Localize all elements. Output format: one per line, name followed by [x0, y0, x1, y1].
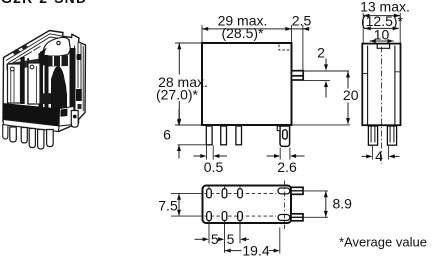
bottom view tab column centerline [284, 181, 286, 230]
svg-text:0.5: 0.5 [204, 159, 224, 175]
relay illustration: pin 1 [10, 127, 16, 142]
svg-text:2: 2 [317, 45, 325, 61]
bottom view body [203, 186, 292, 224]
svg-text:7.5: 7.5 [158, 198, 178, 214]
relay illustration: left panel 2 [28, 63, 40, 104]
bottom view pin hole 2 [222, 189, 227, 198]
svg-text:G2R-2-SND: G2R-2-SND [1, 0, 87, 6]
relay illustration: panel 1 contacts [11, 67, 14, 102]
front view tab pin notch [277, 126, 280, 131]
relay illustration: dome screw [57, 41, 60, 44]
bottom view column ticks bottom [209, 211, 240, 253]
relay illustration: right face lower mark [78, 104, 82, 109]
bottom view pin hole 3 [238, 189, 243, 198]
bottom view tab 2 [291, 214, 303, 221]
dimension 7.5 row spacing [171, 192, 202, 194]
relay illustration: panel header band [7, 59, 41, 71]
svg-text:2.6: 2.6 [277, 159, 297, 175]
bottom view row centerline 2 [205, 215, 277, 217]
relay illustration: pin 5 [47, 130, 54, 147]
relay illustration: panel 2 contacts [36, 66, 38, 103]
side view body [362, 44, 400, 126]
relay illustration: base bottom rim [3, 120, 59, 132]
svg-text:4: 4 [375, 148, 383, 164]
relay illustration: base right step [59, 107, 74, 127]
bottom view tab slot 2 [278, 215, 290, 221]
bottom view tab 1 [291, 187, 303, 194]
bottom view pin hole 6 [238, 212, 243, 221]
relay illustration: tab pin [71, 111, 78, 128]
relay illustration: interior dark bar B2 [45, 55, 49, 110]
dimension 0.5 pin width [206, 146, 208, 160]
svg-text:6: 6 [163, 127, 171, 143]
relay illustration: pin 0 [3, 125, 8, 140]
relay illustration: panel 2 screw [30, 65, 34, 69]
svg-text:5: 5 [227, 231, 235, 247]
side view centerline [380, 47, 382, 164]
front view side tab [292, 71, 304, 80]
relay illustration: top face slots [13, 49, 21, 55]
relay illustration: black base [3, 103, 60, 126]
svg-text:2.5: 2.5 [292, 13, 312, 29]
dimension 19.4 [225, 249, 231, 253]
svg-text:10: 10 [374, 26, 390, 42]
relay illustration: dark region left of dome [40, 48, 47, 67]
relay illustration: top dome [43, 37, 70, 58]
front view side tab midline [292, 75, 304, 77]
dimension 28 max left [178, 43, 180, 75]
svg-text:(28.5)*: (28.5)* [221, 25, 264, 41]
relay illustration: left panel 1 [8, 64, 21, 103]
front view pin 1 [206, 126, 212, 145]
bottom view column ticks top [209, 186, 240, 198]
relay illustration: case body [3, 31, 86, 132]
relay illustration: interior dark bar A [21, 57, 25, 104]
svg-text:8.9: 8.9 [333, 196, 353, 212]
svg-text:20: 20 [343, 87, 359, 103]
bottom view pin hole 5 [222, 212, 227, 221]
bottom view pin hole 1 [207, 189, 212, 198]
bottom view row centerline 1 [205, 192, 277, 194]
dimension 5 5 pin pitch [195, 238, 206, 240]
dimension 20 height [347, 72, 349, 89]
front view hidden tab dashes [279, 45, 291, 51]
bottom view tab slot 1 [278, 188, 290, 194]
side view top recess [377, 45, 389, 49]
relay illustration: base right sockets [60, 109, 67, 117]
relay illustration: pin 4 [38, 130, 44, 150]
side view pin left [368, 126, 377, 145]
dimension 8.9 tab spacing [297, 190, 328, 192]
svg-text:(27.0)*: (27.0)* [156, 87, 199, 103]
dimension 6 pin length [178, 109, 180, 126]
side view step right [395, 71, 400, 73]
relay illustration: pin 3 [29, 129, 35, 148]
side view step left [363, 73, 368, 75]
front view tab pin [280, 126, 290, 146]
bottom view pin hole 4 [207, 212, 212, 221]
relay illustration: right tall column [70, 48, 76, 110]
svg-text:19.4: 19.4 [242, 242, 269, 258]
relay illustration: right face block [76, 89, 82, 101]
relay illustration: pin 2 [21, 128, 27, 144]
relay illustration: mechanism band [40, 93, 67, 105]
side view inner wall right [394, 46, 396, 125]
relay illustration: armature dark mass [51, 66, 67, 110]
dimension 2.6 tab pin width [279, 148, 281, 160]
svg-text:5: 5 [211, 231, 219, 247]
front view pin 3 [236, 126, 242, 145]
front view tab pin hole [283, 130, 288, 139]
relay illustration: top face inner lip [6, 34, 70, 65]
relay illustration: interior dark bar B1 [39, 53, 44, 110]
dimension 4 pin offset [371, 146, 373, 160]
side view inner wall left [367, 46, 369, 125]
svg-text:*Average value: *Average value [339, 235, 427, 250]
relay illustration: right face lines [75, 43, 84, 112]
relay illustration: right latch knob [77, 54, 82, 60]
side view pin right [387, 126, 396, 145]
relay illustration: panel 1 screw [10, 67, 14, 71]
dimension 29 max top [202, 28, 310, 30]
relay illustration: interior dark line A2 [27, 58, 29, 104]
relay illustration: sub-dome band [48, 56, 68, 67]
front view body [202, 43, 292, 125]
front view pin 2 [221, 126, 227, 145]
relay illustration: tab pin hole [73, 115, 77, 119]
